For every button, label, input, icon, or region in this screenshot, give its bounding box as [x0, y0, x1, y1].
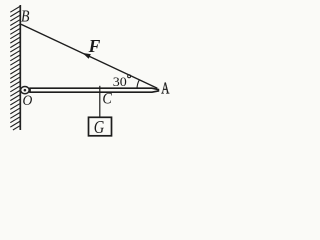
hinge at O	[21, 87, 30, 94]
degree symbol	[128, 75, 131, 78]
svg-text:30: 30	[113, 74, 127, 89]
beam OA	[30, 88, 158, 92]
wall	[19, 5, 21, 130]
hinge pin dot	[24, 89, 27, 92]
angle arc at A	[137, 80, 139, 88]
force F arrowhead	[83, 53, 91, 59]
svg-text:O: O	[23, 93, 33, 109]
svg-text:B: B	[21, 6, 30, 25]
svg-text:G: G	[94, 117, 105, 137]
svg-text:F: F	[88, 36, 101, 56]
weight box G	[89, 117, 112, 136]
cable BA	[21, 24, 157, 88]
svg-text:C: C	[102, 90, 112, 107]
svg-text:A: A	[161, 79, 169, 98]
wall hatching	[10, 6, 20, 130]
string at C	[99, 86, 101, 118]
